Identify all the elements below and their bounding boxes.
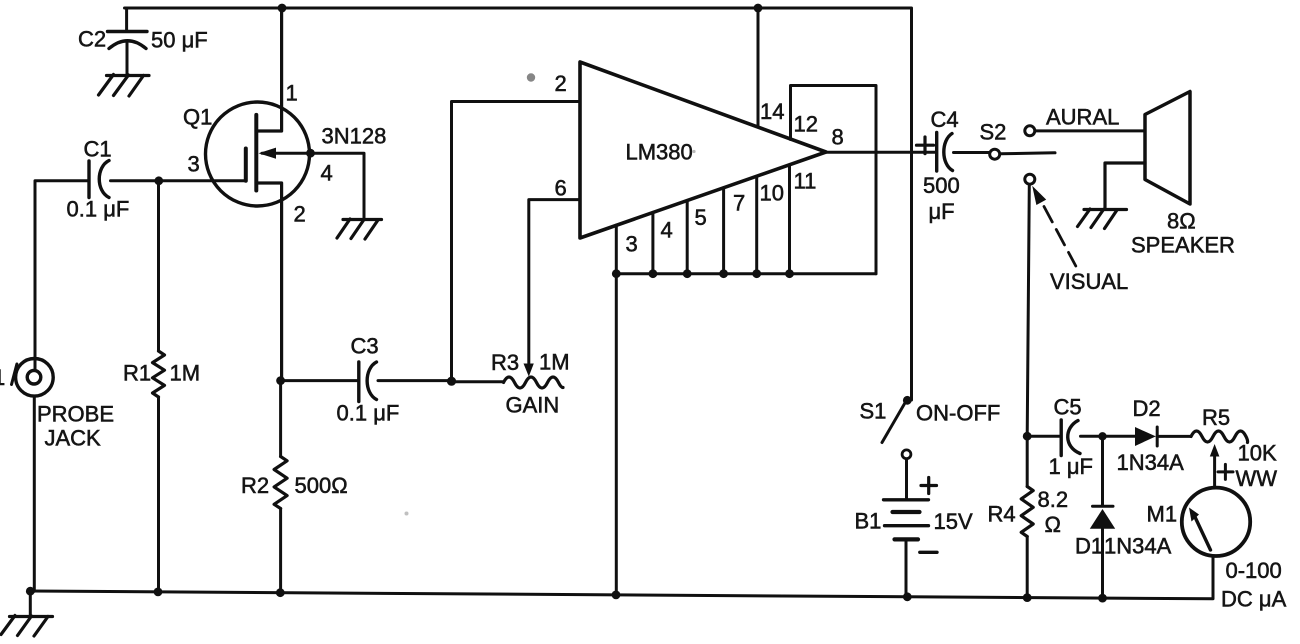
svg-text:500: 500 — [923, 173, 960, 198]
svg-text:50 μF: 50 μF — [151, 28, 208, 53]
svg-text:1N34A: 1N34A — [1117, 450, 1185, 475]
svg-text:12: 12 — [794, 112, 818, 137]
svg-text:2: 2 — [555, 71, 567, 96]
svg-text:15V: 15V — [934, 509, 973, 534]
svg-text:PROBE: PROBE — [37, 402, 114, 427]
svg-text:7: 7 — [733, 191, 745, 216]
svg-text:0-100: 0-100 — [1226, 558, 1282, 583]
svg-text:C2: C2 — [78, 27, 106, 52]
svg-text:Ω: Ω — [1045, 512, 1061, 537]
svg-text:0.1 μF: 0.1 μF — [67, 197, 130, 222]
svg-text:SPEAKER: SPEAKER — [1131, 233, 1235, 258]
svg-text:R3: R3 — [491, 350, 519, 375]
svg-text:1M: 1M — [170, 361, 201, 386]
svg-text:4: 4 — [321, 161, 333, 186]
svg-text:500Ω: 500Ω — [295, 473, 348, 498]
svg-text:VISUAL: VISUAL — [1050, 269, 1128, 294]
svg-text:ON-OFF: ON-OFF — [916, 401, 1000, 426]
svg-text:AURAL: AURAL — [1046, 105, 1119, 130]
svg-text:D1: D1 — [1075, 534, 1103, 559]
svg-text:5: 5 — [695, 205, 707, 230]
svg-text:D2: D2 — [1133, 396, 1161, 421]
svg-text:2: 2 — [294, 202, 306, 227]
svg-text:C5: C5 — [1054, 395, 1082, 420]
svg-text:R5: R5 — [1202, 405, 1230, 430]
svg-text:3: 3 — [188, 152, 200, 177]
svg-text:S1: S1 — [860, 399, 887, 424]
svg-text:3: 3 — [626, 232, 638, 257]
svg-text:C4: C4 — [931, 107, 959, 132]
svg-text:DC μA: DC μA — [1221, 587, 1287, 612]
svg-text:6: 6 — [555, 176, 567, 201]
svg-text:14: 14 — [760, 99, 784, 124]
svg-text:1: 1 — [0, 365, 5, 390]
svg-text:S2: S2 — [980, 120, 1007, 145]
svg-text:Q1: Q1 — [183, 105, 212, 130]
svg-text:10K: 10K — [1238, 441, 1277, 466]
svg-text:μF: μF — [929, 199, 955, 224]
svg-text:R4: R4 — [988, 502, 1016, 527]
svg-text:1: 1 — [286, 81, 298, 106]
svg-text:10: 10 — [760, 181, 784, 206]
svg-text:R1: R1 — [123, 361, 151, 386]
svg-text:8Ω: 8Ω — [1167, 209, 1196, 234]
svg-text:8: 8 — [832, 125, 844, 150]
svg-text:JACK: JACK — [45, 426, 102, 451]
svg-text:R2: R2 — [241, 473, 269, 498]
svg-text:1N34A: 1N34A — [1104, 534, 1172, 559]
svg-text:M1: M1 — [1147, 502, 1178, 527]
svg-text:11: 11 — [794, 169, 817, 194]
svg-text:1M: 1M — [539, 350, 570, 375]
svg-text:0.1 μF: 0.1 μF — [337, 401, 400, 426]
svg-text:C3: C3 — [351, 334, 379, 359]
svg-text:WW: WW — [1236, 466, 1278, 491]
svg-text:C1: C1 — [84, 137, 112, 162]
svg-text:8.2: 8.2 — [1038, 487, 1069, 512]
svg-text:3N128: 3N128 — [322, 124, 387, 149]
svg-text:1 μF: 1 μF — [1049, 454, 1093, 479]
svg-text:LM380: LM380 — [626, 140, 693, 165]
svg-text:4: 4 — [661, 218, 673, 243]
svg-text:B1: B1 — [855, 509, 882, 534]
svg-text:GAIN: GAIN — [506, 393, 560, 418]
